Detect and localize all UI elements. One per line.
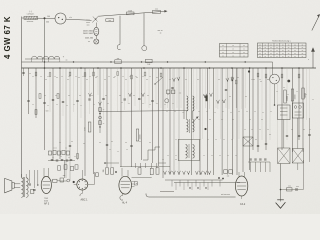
svg-text:xx: xx [259, 56, 261, 58]
svg-text:xx: xx [237, 77, 239, 79]
svg-text:xxx: xxx [227, 176, 230, 178]
svg-text:xx: xx [276, 50, 278, 52]
svg-text:xx: xx [264, 53, 266, 55]
svg-text:xx: xx [276, 47, 278, 49]
svg-text:xx: xx [309, 129, 311, 131]
svg-text:xx: xx [296, 91, 298, 93]
svg-text:xx: xx [29, 73, 31, 75]
svg-text:xx: xx [232, 52, 234, 54]
svg-text:xx: xx [99, 142, 101, 144]
svg-text:xx: xx [303, 129, 305, 131]
svg-text:xx: xx [75, 76, 77, 78]
svg-text:xx: xx [232, 49, 234, 51]
svg-text:xx: xx [288, 47, 290, 49]
svg-text:xx: xx [103, 109, 105, 111]
svg-text:xx: xx [238, 111, 240, 113]
svg-text:xxx: xxx [117, 58, 120, 60]
svg-text:xx: xx [302, 44, 304, 46]
svg-text:Röhrenbestückung u: Röhrenbestückung u [272, 40, 290, 43]
svg-text:xx: xx [270, 44, 272, 46]
svg-text:xx: xx [54, 76, 56, 78]
svg-text:xx: xx [283, 87, 285, 89]
svg-text:xx: xx [232, 55, 234, 57]
svg-text:xx: xx [264, 44, 266, 46]
svg-text:xx: xx [230, 112, 232, 114]
svg-text:xx: xx [122, 76, 124, 78]
svg-text:xx: xx [261, 119, 263, 121]
svg-text:xx: xx [68, 157, 70, 159]
svg-text:500: 500 [46, 22, 49, 24]
svg-text:xx: xx [56, 77, 58, 79]
svg-text:xx: xx [71, 141, 73, 143]
svg-text:xx: xx [255, 139, 257, 141]
svg-text:xx: xx [55, 95, 57, 97]
svg-text:xx: xx [80, 105, 82, 107]
svg-text:xx: xx [211, 155, 213, 157]
svg-text:antenne: antenne [27, 20, 34, 23]
svg-text:xx: xx [249, 119, 251, 121]
svg-text:xx: xx [259, 47, 261, 49]
svg-text:xx: xx [269, 134, 271, 136]
svg-text:xx: xx [207, 139, 209, 141]
svg-text:xx: xx [270, 47, 272, 49]
svg-text:xx: xx [218, 79, 220, 81]
svg-text:xx: xx [182, 112, 184, 114]
svg-text:xx: xx [125, 142, 127, 144]
svg-text:xx: xx [44, 95, 46, 97]
svg-text:xx: xx [126, 149, 128, 151]
svg-text:xx: xx [185, 79, 187, 81]
svg-text:xx: xx [214, 112, 216, 114]
svg-text:xx: xx [232, 45, 234, 47]
svg-text:xx: xx [294, 50, 296, 52]
svg-text:xx: xx [221, 119, 223, 121]
svg-text:xx: xx [259, 53, 261, 55]
svg-text:xx: xx [259, 129, 261, 131]
svg-text:xxx: xxx [288, 185, 291, 187]
svg-text:xx: xx [149, 76, 151, 78]
svg-text:xx: xx [73, 104, 75, 106]
svg-text:xx: xx [104, 79, 106, 81]
svg-text:xx: xx [47, 105, 49, 107]
svg-text:xx: xx [276, 91, 278, 93]
svg-text:15000: 15000 [287, 96, 289, 101]
svg-text:xx: xx [66, 105, 68, 107]
svg-text:a b: a b [69, 17, 72, 19]
svg-text:xx: xx [227, 155, 229, 157]
svg-text:xx: xx [82, 76, 84, 78]
svg-text:xx: xx [294, 44, 296, 46]
svg-text:700: 700 [103, 170, 105, 173]
svg-text:xx: xx [262, 112, 264, 114]
svg-text:xx: xx [65, 148, 67, 150]
svg-text:xx: xx [128, 103, 130, 105]
svg-text:xx: xx [68, 76, 70, 78]
svg-text:xx: xx [302, 53, 304, 55]
svg-text:AF 3: AF 3 [44, 203, 50, 206]
svg-text:xx: xx [253, 79, 255, 81]
svg-text:10000: 10000 [295, 95, 297, 100]
svg-text:xx: xx [107, 103, 109, 105]
svg-text:xx: xx [125, 79, 127, 81]
svg-text:xx: xx [222, 55, 224, 57]
svg-text:xx: xx [162, 159, 164, 161]
svg-text:xx: xx [156, 103, 158, 105]
svg-text:xx: xx [197, 79, 199, 81]
svg-text:xx: xx [219, 155, 221, 157]
svg-text:xx: xx [264, 47, 266, 49]
svg-text:xx: xx [167, 94, 169, 96]
svg-text:xx: xx [133, 95, 135, 97]
svg-text:xx: xx [108, 76, 110, 78]
svg-text:xx: xx [209, 119, 211, 121]
svg-text:xx: xx [52, 157, 54, 159]
svg-text:xx: xx [232, 119, 234, 121]
svg-text:xx: xx [67, 79, 69, 81]
svg-text:xx: xx [172, 103, 174, 105]
svg-text:20012 4601: 20012 4601 [83, 33, 93, 35]
svg-text:xx: xx [59, 142, 61, 144]
svg-text:xx: xx [288, 53, 290, 55]
svg-text:xx: xx [243, 52, 245, 54]
svg-text:xx: xx [267, 79, 269, 81]
svg-text:xx: xx [164, 104, 166, 106]
svg-text:xx: xx [88, 41, 90, 43]
svg-text:500: 500 [46, 111, 49, 113]
svg-text:xx: xx [142, 76, 144, 78]
svg-text:xx: xx [166, 111, 168, 113]
svg-text:xx: xx [260, 81, 262, 83]
svg-text:xx: xx [243, 55, 245, 57]
svg-text:xx: xx [121, 102, 123, 104]
svg-text:(....): (....) [29, 11, 33, 13]
svg-text:xx: xx [264, 50, 266, 52]
svg-text:xx: xx [117, 151, 119, 153]
svg-text:x: x [308, 59, 309, 61]
svg-text:xx: xx [282, 53, 284, 55]
svg-text:xx: xx [175, 139, 177, 141]
svg-text:xx: xx [89, 76, 91, 78]
svg-text:xx: xx [312, 99, 314, 101]
svg-text:xx: xx [32, 76, 34, 78]
svg-text:xx: xx [305, 94, 307, 96]
svg-text:xx: xx [198, 111, 200, 113]
svg-text:xx: xx [294, 53, 296, 55]
svg-text:xxx: xxx [109, 20, 112, 22]
svg-text:xx: xx [243, 45, 245, 47]
svg-text:xx: xx [259, 50, 261, 52]
svg-text:xx: xx [68, 95, 70, 97]
svg-text:xx: xx [66, 60, 68, 62]
svg-text:xx: xx [40, 76, 42, 78]
svg-text:xx: xx [229, 96, 231, 98]
svg-text:xx: xx [142, 103, 144, 105]
svg-text:xx: xx [287, 94, 289, 96]
svg-text:xx: xx [246, 111, 248, 113]
svg-text:xx: xx [74, 156, 76, 158]
svg-text:xx: xx [136, 183, 138, 185]
svg-text:1103: 1103 [128, 10, 132, 12]
svg-text:xx: xx [259, 79, 261, 81]
svg-text:xx: xx [199, 139, 201, 141]
svg-text:xx: xx [119, 95, 121, 97]
svg-text:xx: xx [206, 111, 208, 113]
svg-text:xx: xx [288, 56, 290, 58]
svg-text:xx: xx [149, 104, 151, 106]
svg-text:xx: xx [288, 50, 290, 52]
svg-text:xx: xx [45, 79, 47, 81]
svg-text:xx: xx [288, 44, 290, 46]
svg-text:mit xxx xxx: mit xxx xxx [221, 193, 230, 196]
svg-text:xxx: xxx [155, 9, 158, 11]
svg-text:4 GW 67 K: 4 GW 67 K [3, 16, 12, 59]
svg-text:xxx xx: xxx xx [158, 30, 163, 32]
svg-text:xx: xx [235, 155, 237, 157]
svg-text:xx: xx [139, 141, 141, 143]
svg-text:xx: xx [60, 156, 62, 158]
svg-text:xx: xx [61, 76, 63, 78]
svg-text:xx: xx [93, 104, 95, 106]
svg-text:xx: xx [96, 76, 98, 78]
svg-text:xx: xx [169, 79, 171, 81]
svg-text:xx: xx [160, 33, 162, 35]
svg-text:xx: xx [270, 56, 272, 58]
svg-text:xx: xx [222, 49, 224, 51]
svg-text:xx: xx [129, 76, 131, 78]
svg-text:xx: xx [282, 56, 284, 58]
svg-text:xx: xx [103, 123, 105, 125]
svg-text:xx: xx [167, 155, 169, 157]
svg-text:xx: xx [294, 47, 296, 49]
svg-text:xx: xx [243, 49, 245, 51]
svg-text:xx: xx [105, 95, 107, 97]
svg-text:10000: 10000 [140, 135, 142, 140]
svg-text:xxx: xxx [63, 175, 66, 177]
svg-text:xx: xx [264, 56, 266, 58]
svg-text:20013 4601: 20013 4601 [83, 30, 93, 32]
svg-text:xx: xx [282, 47, 284, 49]
svg-text:xx: xx [215, 139, 217, 141]
svg-text:CA 2: CA 2 [240, 203, 246, 206]
svg-text:AL 4: AL 4 [122, 201, 127, 204]
svg-text:xx xx: xx xx [53, 148, 57, 150]
svg-text:xx: xx [114, 76, 116, 78]
svg-text:xx: xx [282, 50, 284, 52]
svg-text:xx: xx [174, 111, 176, 113]
svg-text:xx: xx [282, 44, 284, 46]
svg-text:xx: xx [109, 149, 111, 151]
svg-text:xx: xx [259, 44, 261, 46]
svg-text:xx: xx [302, 56, 304, 58]
svg-text:xx: xx [198, 119, 200, 121]
svg-text:xx: xx [91, 95, 93, 97]
svg-text:xx: xx [244, 129, 246, 131]
svg-text:100: 100 [47, 16, 50, 18]
svg-text:xxx: xxx [87, 24, 90, 26]
svg-text:xx: xx [251, 129, 253, 131]
svg-text:xx: xx [79, 95, 81, 97]
svg-text:xx: xx [56, 104, 58, 106]
svg-text:xx: xx [222, 45, 224, 47]
svg-text:xx: xx [175, 155, 177, 157]
svg-text:xxx: xxx [179, 93, 182, 95]
svg-text:146: 146 [147, 64, 150, 66]
svg-text:2001 460: 2001 460 [85, 38, 93, 40]
svg-text:xx: xx [302, 47, 304, 49]
svg-text:2500: 2500 [85, 127, 87, 131]
svg-text:xx: xx [291, 129, 293, 131]
svg-text:xx: xx [245, 96, 247, 98]
svg-text:xx: xx [276, 53, 278, 55]
svg-text:xx: xx [146, 79, 148, 81]
svg-text:xx: xx [302, 50, 304, 52]
svg-text:xx: xx [251, 79, 253, 81]
svg-text:xx: xx [254, 111, 256, 113]
svg-text:xx: xx [175, 159, 177, 161]
svg-text:xx: xx [294, 56, 296, 58]
svg-text:xx: xx [32, 104, 34, 106]
svg-text:xx: xx [270, 53, 272, 55]
svg-text:xx: xx [111, 141, 113, 143]
svg-text:xx: xx [86, 79, 88, 81]
svg-text:xx: xx [270, 50, 272, 52]
svg-text:xx: xx [270, 111, 272, 113]
svg-text:xx: xx [231, 139, 233, 141]
svg-text:xx: xx [147, 95, 149, 97]
svg-text:xx: xx [267, 129, 269, 131]
svg-text:xx: xx [47, 76, 49, 78]
svg-text:xx: xx [276, 44, 278, 46]
svg-text:xx: xx [203, 155, 205, 157]
svg-text:xx: xx [78, 77, 80, 79]
svg-text:xx: xx [83, 143, 85, 145]
svg-text:xx: xx [135, 76, 137, 78]
svg-text:xx: xx [149, 142, 151, 144]
svg-text:xx: xx [223, 139, 225, 141]
svg-text:ABC 1: ABC 1 [81, 198, 89, 201]
svg-text:xx: xx [156, 77, 158, 79]
svg-text:xx: xx [222, 52, 224, 54]
svg-text:xx: xx [276, 56, 278, 58]
svg-text:xx: xx [222, 111, 224, 113]
svg-text:xxx: xxx [296, 186, 299, 188]
